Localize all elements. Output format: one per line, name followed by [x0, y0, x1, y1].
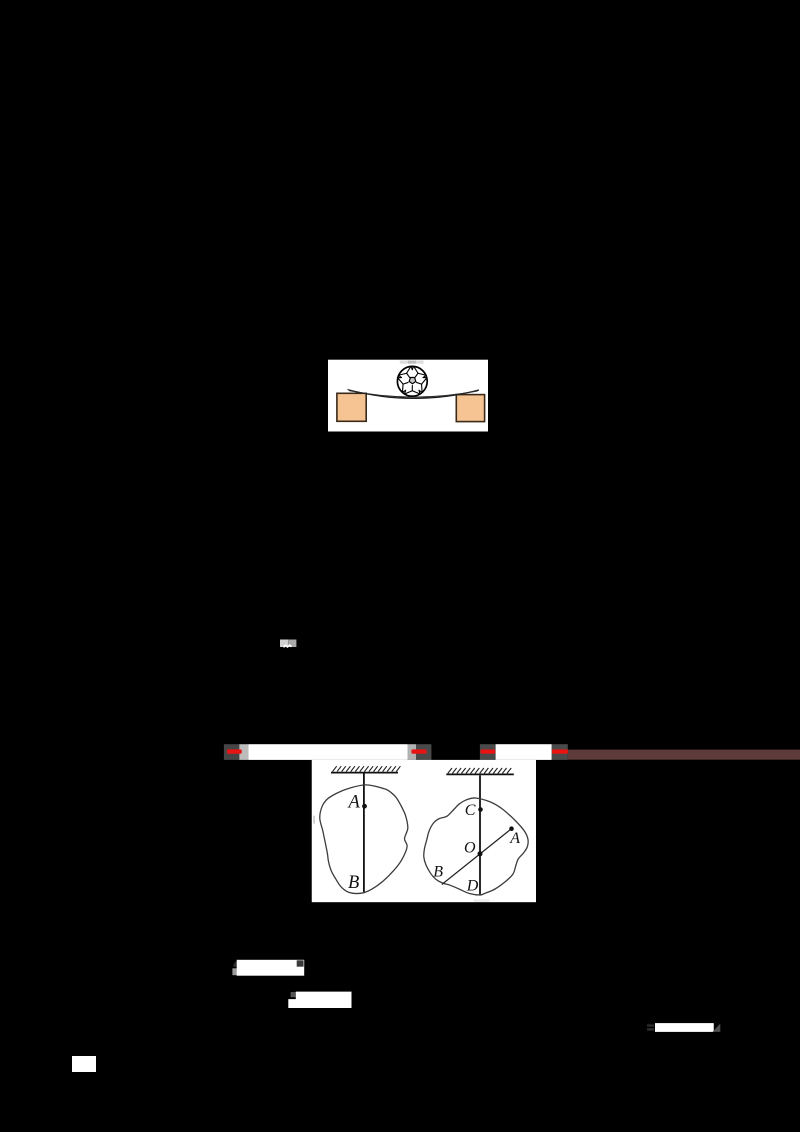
fig1 ceiling line: [331, 772, 398, 774]
text highlight fragment row 2: [288, 992, 351, 1008]
white figure background: [328, 360, 488, 432]
central gray pentagon: [409, 377, 416, 383]
highlighted strip row with red dashes: [224, 744, 800, 760]
faint gray dash at left edge: [313, 816, 315, 824]
fig2 blob outline: [424, 798, 528, 895]
fig2 plumb line: [479, 775, 481, 895]
svg-text:B: B: [433, 864, 443, 881]
small gray thumbnail blob: [280, 640, 296, 648]
svg-text:B: B: [348, 873, 359, 893]
red dash 1: [227, 749, 242, 753]
fig2 point C dot: [478, 807, 483, 812]
white rectangle bottom left: [72, 1056, 96, 1072]
white figure background: [312, 760, 536, 902]
red dash 4: [552, 749, 568, 753]
dark square 3: [480, 744, 496, 760]
red dash 3: [481, 749, 496, 753]
figure: two hanging blobs: [312, 760, 536, 902]
fig1 ceiling hatch: [333, 766, 401, 771]
dark square 1: [224, 744, 239, 760]
soccer ball: [397, 366, 427, 396]
left block: [337, 393, 366, 421]
red dash 2: [411, 749, 426, 753]
fig1 plumb line: [363, 774, 365, 894]
maroon bar to right edge: [568, 750, 800, 760]
white strip right: [496, 744, 552, 760]
svg-text:A: A: [347, 792, 361, 812]
fig1 blob outline: [320, 785, 408, 894]
fig2 ceiling hatch: [448, 768, 511, 773]
svg-text:A: A: [509, 830, 520, 847]
gray band above ball: [400, 361, 408, 364]
white strip left: [248, 744, 407, 760]
fig1 point A dot: [362, 804, 367, 809]
svg-text:O: O: [464, 840, 476, 857]
fig2 point A dot: [509, 826, 514, 831]
dark square 4: [552, 744, 568, 760]
fig2 ceiling line: [446, 773, 514, 775]
gray squares middle: [408, 744, 417, 760]
fig2 diagonal line through O: [442, 829, 512, 885]
text highlight fragment row 1: [232, 960, 304, 976]
right block: [456, 395, 484, 422]
fig2 point O dot: [478, 851, 483, 856]
faint smudge lower right: [474, 899, 490, 902]
text highlight fragment row 3: [647, 1023, 720, 1032]
figure: ball on sagging rope between two blocks: [328, 360, 488, 432]
svg-text:C: C: [465, 802, 476, 819]
svg-text:D: D: [466, 878, 479, 895]
sagging rope curves: [348, 390, 479, 399]
